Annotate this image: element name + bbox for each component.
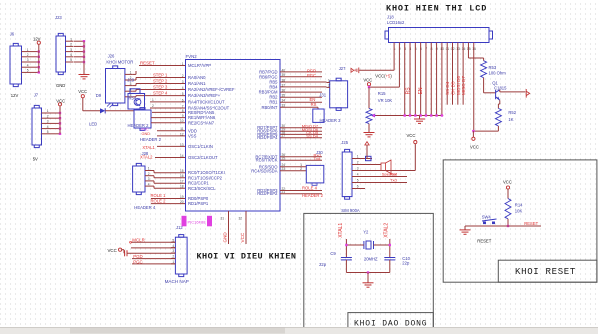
svg-text:1: 1 — [27, 48, 29, 52]
svg-text:1: 1 — [357, 155, 359, 159]
svg-text:1K: 1K — [508, 117, 513, 122]
svg-text:12: 12 — [180, 132, 184, 136]
svg-text:9: 9 — [182, 114, 184, 118]
svg-text:RESET: RESET — [140, 60, 155, 65]
svg-text:J12: J12 — [176, 225, 183, 230]
svg-text:2: 2 — [300, 167, 302, 171]
svg-text:GND: GND — [56, 83, 65, 88]
svg-text:2: 2 — [152, 104, 154, 108]
svg-text:10: 10 — [180, 119, 184, 123]
svg-text:2: 2 — [357, 161, 359, 165]
svg-text:XTAL2: XTAL2 — [140, 155, 153, 160]
svg-text:STEP 3: STEP 3 — [153, 84, 168, 89]
svg-text:LCD16x2: LCD16x2 — [387, 20, 405, 25]
svg-text:Txd: Txd — [314, 156, 321, 161]
svg-text:R14: R14 — [515, 203, 523, 208]
svg-text:3: 3 — [70, 48, 72, 52]
svg-text:HEADER 3: HEADER 3 — [320, 118, 342, 123]
svg-text:J31: J31 — [319, 93, 326, 98]
svg-text:HEADER 2: HEADER 2 — [302, 193, 324, 198]
svg-text:4: 4 — [70, 53, 72, 57]
svg-text:MACH NAP: MACH NAP — [165, 279, 189, 284]
svg-text:20: 20 — [180, 200, 184, 204]
svg-text:STEP 2: STEP 2 — [153, 78, 168, 83]
svg-text:Rxd: Rxd — [390, 172, 397, 177]
svg-text:J25: J25 — [341, 140, 348, 145]
svg-text:ROLE 1: ROLE 1 — [151, 193, 167, 198]
svg-text:RA0/AN0: RA0/AN0 — [188, 75, 206, 80]
svg-text:4: 4 — [172, 244, 174, 248]
svg-text:VCC: VCC — [407, 133, 416, 138]
svg-text:6: 6 — [357, 185, 359, 189]
svg-text:2: 2 — [27, 53, 29, 57]
svg-text:J6: J6 — [10, 31, 15, 36]
svg-text:VCC(+5): VCC(+5) — [375, 74, 392, 79]
svg-text:RC1/T1OSI/CCP2: RC1/T1OSI/CCP2 — [188, 175, 223, 180]
svg-text:VCC: VCC — [363, 78, 372, 83]
svg-text:R52: R52 — [508, 110, 516, 115]
svg-text:RC4/SDI/SDA: RC4/SDI/SDA — [251, 168, 278, 173]
svg-text:XTAL1: XTAL1 — [338, 223, 344, 238]
svg-text:MCLR*/VPP: MCLR*/VPP — [188, 63, 211, 68]
svg-text:RD1/PSP1: RD1/PSP1 — [188, 201, 209, 206]
svg-text:2: 2 — [328, 84, 330, 88]
svg-text:SIM 900A: SIM 900A — [341, 208, 360, 213]
svg-text:KHOI RESET: KHOI RESET — [515, 267, 576, 277]
svg-text:13: 13 — [180, 143, 184, 147]
svg-text:MCLR: MCLR — [132, 237, 144, 242]
svg-text:SS D4: SS D4 — [445, 81, 450, 95]
svg-text:14: 14 — [180, 154, 184, 158]
svg-text:STEP 4: STEP 4 — [153, 90, 168, 95]
svg-text:RC3/SCK/SCL: RC3/SCK/SCL — [188, 186, 216, 191]
svg-text:D9: D9 — [96, 93, 102, 98]
svg-text:20MHZ: 20MHZ — [364, 256, 378, 261]
svg-text:RA4/T0CKI/C1OUT: RA4/T0CKI/C1OUT — [188, 99, 225, 104]
svg-text:1: 1 — [152, 98, 154, 102]
svg-text:100 Ohm: 100 Ohm — [489, 70, 507, 75]
svg-text:MOSI D6: MOSI D6 — [456, 76, 461, 95]
svg-text:R15: R15 — [378, 91, 386, 96]
svg-text:12V: 12V — [11, 93, 19, 98]
svg-text:31: 31 — [220, 217, 224, 221]
svg-text:11: 11 — [180, 127, 184, 131]
svg-text:4: 4 — [148, 182, 150, 186]
svg-text:XTAL1: XTAL1 — [142, 145, 155, 150]
svg-text:2: 2 — [148, 172, 150, 176]
svg-text:VR 10K: VR 10K — [378, 98, 393, 103]
svg-text:1: 1 — [182, 62, 184, 66]
svg-text:GND: GND — [142, 132, 151, 136]
svg-text:VCC: VCC — [78, 89, 87, 94]
svg-text:3: 3 — [47, 120, 49, 124]
svg-text:RC6/TX/CK: RC6/TX/CK — [256, 158, 278, 163]
svg-text:32: 32 — [238, 217, 242, 221]
svg-text:RB0/INT: RB0/INT — [261, 105, 277, 110]
svg-text:2: 2 — [47, 114, 49, 118]
svg-text:R53: R53 — [489, 65, 497, 70]
svg-text:J26: J26 — [108, 53, 115, 58]
svg-text:OSC1/CLKIN: OSC1/CLKIN — [188, 144, 213, 149]
svg-text:OSC2/CLKOUT: OSC2/CLKOUT — [188, 155, 218, 160]
svg-text:VSS: VSS — [188, 133, 197, 138]
svg-text:17: 17 — [180, 180, 184, 184]
svg-text:10K: 10K — [515, 209, 523, 214]
svg-text:2: 2 — [182, 74, 184, 78]
svg-text:22p: 22p — [402, 260, 410, 265]
svg-text:RA1/AN1: RA1/AN1 — [188, 81, 206, 86]
svg-text:SW4: SW4 — [482, 215, 492, 220]
svg-text:3: 3 — [27, 58, 29, 62]
svg-text:5: 5 — [182, 92, 184, 96]
svg-text:2: 2 — [70, 43, 72, 47]
svg-text:2: 2 — [172, 255, 174, 259]
svg-text:22p: 22p — [319, 262, 327, 267]
svg-text:J27: J27 — [339, 66, 346, 71]
svg-text:HEADER 4: HEADER 4 — [134, 205, 156, 210]
svg-text:4: 4 — [357, 173, 359, 177]
svg-text:5: 5 — [357, 179, 359, 183]
svg-text:GND: GND — [223, 232, 228, 243]
svg-text:VCC: VCC — [503, 180, 512, 185]
svg-text:EN: EN — [418, 87, 424, 94]
svg-text:STEP 1: STEP 1 — [153, 72, 168, 77]
svg-text:5: 5 — [70, 58, 72, 62]
svg-text:PIC16F88: PIC16F88 — [188, 220, 207, 225]
svg-text:6: 6 — [182, 98, 184, 102]
svg-text:RESET: RESET — [477, 238, 491, 243]
svg-text:RE2/CS*/AN7: RE2/CS*/AN7 — [188, 120, 215, 125]
svg-text:RA3/AN3/VREF+: RA3/AN3/VREF+ — [188, 93, 221, 98]
svg-text:Y2: Y2 — [363, 230, 369, 235]
svg-text:RD2/PSP2: RD2/PSP2 — [257, 191, 278, 196]
svg-text:VCC: VCC — [141, 127, 149, 131]
svg-text:KHOI HIEN THI LCD: KHOI HIEN THI LCD — [386, 4, 487, 14]
svg-text:KHOI MOTOR: KHOI MOTOR — [106, 59, 133, 64]
svg-text:FVN2: FVN2 — [186, 54, 198, 59]
svg-text:ROLE 4: ROLE 4 — [302, 186, 318, 191]
svg-text:Txd: Txd — [390, 178, 397, 183]
svg-text:RD4/PSP4: RD4/PSP4 — [257, 135, 278, 140]
svg-text:J18: J18 — [387, 14, 394, 19]
svg-text:PGC: PGC — [307, 73, 316, 78]
svg-text:5: 5 — [47, 130, 49, 134]
svg-text:3: 3 — [182, 80, 184, 84]
svg-text:1: 1 — [328, 79, 330, 83]
svg-text:EN: EN — [310, 97, 316, 102]
svg-text:4: 4 — [47, 125, 49, 129]
svg-text:5: 5 — [27, 69, 29, 73]
svg-text:3: 3 — [148, 177, 150, 181]
svg-text:CK D5: CK D5 — [451, 81, 456, 95]
svg-text:MISO D7: MISO D7 — [461, 76, 466, 95]
svg-text:RA2/AN2/VREF-/CVREF: RA2/AN2/VREF-/CVREF — [188, 87, 235, 92]
svg-text:1: 1 — [172, 260, 174, 264]
svg-text:SS D4: SS D4 — [306, 133, 318, 138]
svg-text:XTAL2: XTAL2 — [383, 223, 389, 238]
svg-text:VCC: VCC — [108, 248, 117, 253]
svg-text:J29: J29 — [127, 77, 134, 82]
svg-text:KHOI VI DIEU KHIEN: KHOI VI DIEU KHIEN — [197, 252, 297, 262]
svg-text:1: 1 — [70, 37, 72, 41]
svg-text:J23: J23 — [55, 15, 62, 20]
svg-text:C1815: C1815 — [494, 86, 507, 91]
svg-text:3: 3 — [172, 249, 174, 253]
svg-text:3: 3 — [357, 167, 359, 171]
svg-text:VCC: VCC — [240, 232, 245, 242]
svg-text:LED: LED — [89, 122, 97, 127]
svg-text:C9: C9 — [330, 251, 336, 256]
svg-text:J7: J7 — [34, 93, 39, 98]
svg-text:1: 1 — [130, 71, 132, 75]
svg-text:15: 15 — [180, 169, 184, 173]
svg-text:RESET: RESET — [524, 221, 538, 226]
svg-text:3: 3 — [130, 82, 132, 86]
svg-text:HEADER 2: HEADER 2 — [140, 137, 162, 142]
svg-text:18: 18 — [180, 185, 184, 189]
svg-text:ROLE 2: ROLE 2 — [151, 199, 167, 204]
svg-text:4: 4 — [182, 86, 184, 90]
svg-text:RS: RS — [406, 87, 412, 95]
svg-text:5: 5 — [172, 238, 174, 242]
svg-text:1: 1 — [148, 167, 150, 171]
svg-text:16: 16 — [180, 174, 184, 178]
svg-text:1: 1 — [47, 109, 49, 113]
svg-text:7: 7 — [182, 104, 184, 108]
svg-text:12V: 12V — [33, 37, 41, 42]
svg-text:VCC: VCC — [56, 99, 65, 104]
svg-text:19: 19 — [180, 195, 184, 199]
svg-text:VCC: VCC — [470, 145, 479, 150]
svg-text:8: 8 — [182, 109, 184, 113]
svg-text:5V: 5V — [33, 156, 38, 161]
svg-text:4: 4 — [27, 63, 29, 67]
svg-text:RS: RS — [311, 102, 317, 107]
